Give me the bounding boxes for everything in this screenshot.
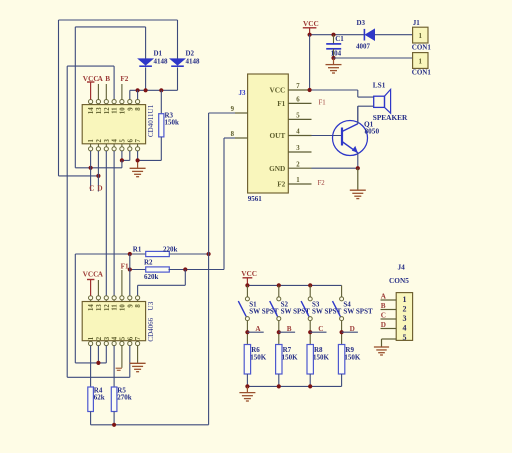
svg-text:2: 2 [403,305,407,314]
ground Q1 [357,168,359,190]
wire switch bottom rail [247,385,341,387]
svg-text:8: 8 [231,131,235,138]
svg-text:SW SPST: SW SPST [343,307,373,315]
wire J4 pin 3 stub [381,318,397,320]
svg-text:2: 2 [96,336,103,340]
wire D2 cathode [177,67,179,90]
svg-text:1: 1 [88,336,95,340]
node U3 pin2 junction [96,361,100,365]
svg-text:5: 5 [296,113,300,120]
capacitor C1 104 [333,35,335,44]
wire H3 R1 left [75,253,145,255]
svg-text:9: 9 [127,107,134,111]
svg-text:U1: U1 [147,104,155,113]
wire Q1 emitter to ground [357,153,359,168]
svg-text:4007: 4007 [356,42,371,50]
wire U1 pin7 to ground net [137,151,139,160]
node C1 bottom junction [331,56,335,60]
svg-text:D: D [97,185,102,193]
resistor R6 150K [244,345,250,375]
svg-text:1: 1 [88,139,95,143]
svg-text:VCC: VCC [83,74,99,83]
node pin8 junction [136,88,140,92]
svg-text:3: 3 [104,336,111,340]
svg-text:14: 14 [88,304,95,311]
switch S1 SW SPST [246,285,248,297]
svg-text:4148: 4148 [154,58,169,66]
wire H4 U3 pins2-3 [75,362,106,364]
wire switch top rail [247,284,341,286]
node A label U3 pin13 [97,280,99,296]
svg-text:A: A [381,293,387,301]
connector J1 CON1 top [413,27,428,43]
svg-text:A: A [98,75,104,83]
wire R7 bottom [278,374,280,386]
resistor R3 150k [160,90,162,113]
svg-text:2: 2 [296,161,300,168]
wire D3 anode to J1 [375,34,413,36]
wire rail R1-left to U3 pins 2/3 [74,254,76,363]
wire J3 pin8 stub [235,137,248,139]
svg-text:C: C [318,325,323,333]
wire J3 pin 7 stub [288,89,311,91]
wire J4 pin 1 stub [381,299,397,301]
diode D3 4007 [363,29,365,41]
svg-text:D2: D2 [186,50,195,58]
power VCC U1 pin14 [90,82,92,100]
svg-text:12: 12 [104,304,111,311]
node U3 pin9 on R1 line [128,252,132,256]
wire CON1 bottom line [334,57,413,59]
svg-text:GND: GND [269,164,285,173]
wire bottom rail R4/R5 [90,412,92,425]
svg-text:VCC: VCC [83,269,99,278]
svg-text:150K: 150K [344,354,361,362]
wire R2 right to J3 pin8 [169,269,225,271]
ground C1 [333,59,335,65]
wire H2 net D [59,175,99,177]
wire S4 to R9 [341,321,343,345]
svg-text:1: 1 [419,58,423,66]
wire H1 net C [75,167,122,169]
svg-text:SPEAKER: SPEAKER [373,113,408,122]
svg-text:OUT: OUT [269,131,285,140]
wire U1 pin4 to U3 pin11 [113,151,115,296]
svg-text:11: 11 [112,107,119,114]
wire pin8 stub [137,90,139,99]
wire U1 pin3 to U3 pin12 [105,151,107,296]
resistor R2 620k [146,267,170,272]
resistor R7 150K [276,345,282,375]
node Q1 emitter junction [356,166,360,170]
wire R3 bottom [160,137,162,161]
svg-text:150k: 150k [165,119,180,127]
svg-text:3: 3 [104,139,111,143]
wire J3 pin9 down [209,112,235,114]
node B label junction [277,330,281,334]
wire VCC down to J3 pin7 [309,35,311,90]
wire J3 pin 1 stub [288,183,311,185]
node U1 pin5 junction [120,158,124,162]
node R1 right junction [207,252,211,256]
wire U1 pin2 stub net D [97,151,99,192]
svg-text:9: 9 [127,304,134,308]
svg-text:A: A [98,270,104,278]
wire J3 pin 2 stub [288,167,311,169]
wire R2 left [130,269,146,271]
node bottom rail junctions [245,384,249,388]
svg-text:13: 13 [96,107,103,114]
node switch rail junction [245,283,249,287]
wire S3 to R8 [309,321,311,345]
resistor R1 220k [146,251,170,256]
svg-text:CD4011: CD4011 [147,113,155,137]
wire R2 junction down to U3 pin8 [184,270,186,286]
wire U3 pin2 stub [97,346,99,363]
svg-text:6: 6 [127,139,134,143]
node D1 junction [144,88,148,92]
wire S1 to R6 [246,321,248,345]
wire net C top rail (U1 pin1/5 to D1 anode) [75,26,145,28]
svg-text:8: 8 [135,107,142,111]
wire S2 to R7 [278,321,280,345]
node switch rail junction [308,283,312,287]
wire J3 pin 3 stub [288,151,311,153]
resistor R9 150K [338,345,344,375]
svg-text:14: 14 [88,107,95,114]
node J3 pin7 VCC junction [308,88,312,92]
svg-text:5: 5 [120,139,127,143]
svg-text:3: 3 [296,145,300,152]
svg-text:4: 4 [112,139,119,143]
svg-text:LS1: LS1 [373,80,386,89]
node C1 junction [331,33,335,37]
svg-text:D: D [350,325,355,333]
wire J4 pin 4 stub [381,328,397,330]
resistor R5 270k [111,387,117,412]
wire speaker bottom terminal to Q1 collector [358,105,374,107]
wire U1 pin5-pin6 [121,151,123,160]
wire U1 pin1 stub net C [90,151,92,191]
svg-text:12: 12 [104,107,111,114]
svg-text:150K: 150K [250,354,267,362]
node R3 junction [159,88,163,92]
wire J3 pin2 GND line [312,167,358,169]
U1 pin circles bottom [89,147,93,151]
op-amp U J3 9561 body [248,74,289,193]
svg-text:F2: F2 [318,180,326,187]
ground switches [246,387,248,393]
ground J4 pin5 [382,338,397,340]
svg-text:B: B [381,302,386,310]
diode D2 4148 [170,59,185,65]
svg-text:7: 7 [135,139,142,143]
svg-text:8: 8 [135,304,142,308]
svg-text:C1: C1 [335,35,344,43]
svg-text:3: 3 [403,314,407,323]
ground U1 [137,162,139,168]
node switch rail junction [277,283,281,287]
svg-text:62k: 62k [94,393,105,401]
resistor R4 62k [88,387,94,412]
svg-text:U3: U3 [147,301,155,310]
node U1 pin7 junction [136,158,140,162]
transistor Q1 8050 [333,121,368,156]
svg-text:6: 6 [296,97,300,104]
svg-text:220k: 220k [163,246,178,254]
svg-text:7: 7 [135,336,142,340]
svg-text:VCC: VCC [241,269,257,278]
svg-text:9: 9 [231,106,235,113]
svg-text:CON1: CON1 [412,43,432,51]
svg-text:2: 2 [96,139,103,143]
wire Q1 collector [357,106,359,124]
svg-text:J3: J3 [239,89,247,97]
wire J3 pin 4 stub [288,135,311,137]
svg-text:6: 6 [127,336,134,340]
wire net D top rail (U1 pin2 to D2 anode) [59,19,178,21]
svg-text:F1: F1 [121,262,129,270]
svg-text:A: A [255,325,261,333]
svg-text:F2: F2 [277,180,285,189]
wire diode junction line [130,89,178,91]
wire speaker top terminal [357,90,359,97]
svg-text:1: 1 [296,177,300,184]
svg-text:B: B [287,325,292,333]
node B label U1 pin12 [105,84,107,100]
wire VCC to C1/D3 line [310,34,365,36]
wire H5 (U1 pin11 to U3 pin6) [67,376,130,378]
svg-text:150K: 150K [282,354,299,362]
svg-text:11: 11 [112,304,119,311]
ground U3 pin7 [137,346,139,363]
node VCC junction [308,33,312,37]
svg-text:J4: J4 [398,263,406,272]
svg-text:D3: D3 [357,19,366,27]
svg-text:C: C [89,185,94,193]
svg-text:1: 1 [419,32,423,40]
wire J3 pin 5 stub [288,118,311,120]
svg-text:F1: F1 [319,100,326,107]
wire R6 bottom [246,374,248,386]
ground U3 pin5 small [121,346,123,368]
svg-text:4: 4 [112,336,119,340]
U1 pin circles top [89,100,93,104]
svg-text:4: 4 [296,129,300,136]
svg-text:F2: F2 [120,75,128,83]
svg-text:CON5: CON5 [389,276,409,285]
node U1 pin1 junction [89,166,93,170]
svg-text:9561: 9561 [248,195,262,203]
U3 pin circles bottom [89,341,93,345]
svg-text:7: 7 [296,83,300,90]
svg-text:CD4066: CD4066 [147,317,155,341]
svg-text:F1: F1 [277,99,285,108]
node U1 pin2 junction [96,174,100,178]
wire J3 pin9 stub [235,112,248,114]
switch S2 SW SPST [278,285,280,297]
wire R8 bottom [309,374,311,386]
wire U3 pin1 to R4 [90,346,92,387]
svg-text:620k: 620k [144,273,159,281]
wire J3 pin 6 stub [288,102,311,104]
svg-text:D: D [381,321,386,329]
speaker LS1 [374,96,385,107]
node D label junction [340,330,344,334]
node A label junction [245,330,249,334]
node R2 right junction [183,267,187,271]
wire U3 pin4 to R5 [113,346,115,387]
U3 pin circles top [89,296,93,300]
switch S3 SW SPST [309,285,311,297]
svg-text:5: 5 [120,336,127,340]
svg-text:4: 4 [403,324,407,333]
svg-text:CON1: CON1 [412,69,432,77]
wire R9 bottom [341,374,343,386]
node F2 label U1 pin10 [121,84,123,100]
svg-text:B: B [105,75,110,83]
svg-text:D1: D1 [154,50,163,58]
svg-text:VCC: VCC [269,86,285,95]
op-amp U3 CD4066 body [82,302,145,341]
svg-text:150K: 150K [313,354,330,362]
wire U3 pin6 to H5 [129,346,131,378]
wire U1 pin5 to H1 [121,160,123,167]
svg-text:VCC: VCC [303,19,319,28]
op-amp U1 CD4011 body [82,105,145,144]
svg-text:R1: R1 [133,246,142,254]
node C label junction [308,330,312,334]
node R5 bottom junction [112,423,116,427]
wire J3 pin7 to speaker [312,89,358,91]
svg-text:10: 10 [120,107,127,114]
node F1 label U3 pin10 [121,270,123,296]
resistor R8 150K [307,345,313,375]
connector J1 CON1 bottom [413,53,428,69]
switch S4 SW SPST [341,285,343,297]
wire J3 pin4 to Q1 base [312,135,343,137]
svg-text:270k: 270k [117,393,132,401]
svg-text:10: 10 [120,304,127,311]
power VCC U3 pin14 [90,280,92,296]
svg-text:1: 1 [403,295,407,304]
svg-text:13: 13 [96,304,103,311]
wire D1 cathode [145,67,147,90]
wire U1 pin11 rail (to H5 bottom) [67,65,114,67]
svg-text:R2: R2 [144,258,153,266]
diode D1 4148 [138,59,153,65]
wire J4 pin 2 stub [381,309,397,311]
node U3 pin9 on R2 line [128,267,132,271]
node A label U1 pin13 [97,84,99,100]
svg-text:C: C [381,312,386,320]
wire R1 right [169,253,208,255]
svg-text:J1: J1 [413,19,421,27]
wire U3 pin9 up [129,254,131,270]
svg-text:8050: 8050 [365,126,380,135]
svg-text:5: 5 [403,333,407,342]
svg-text:4148: 4148 [186,58,201,66]
